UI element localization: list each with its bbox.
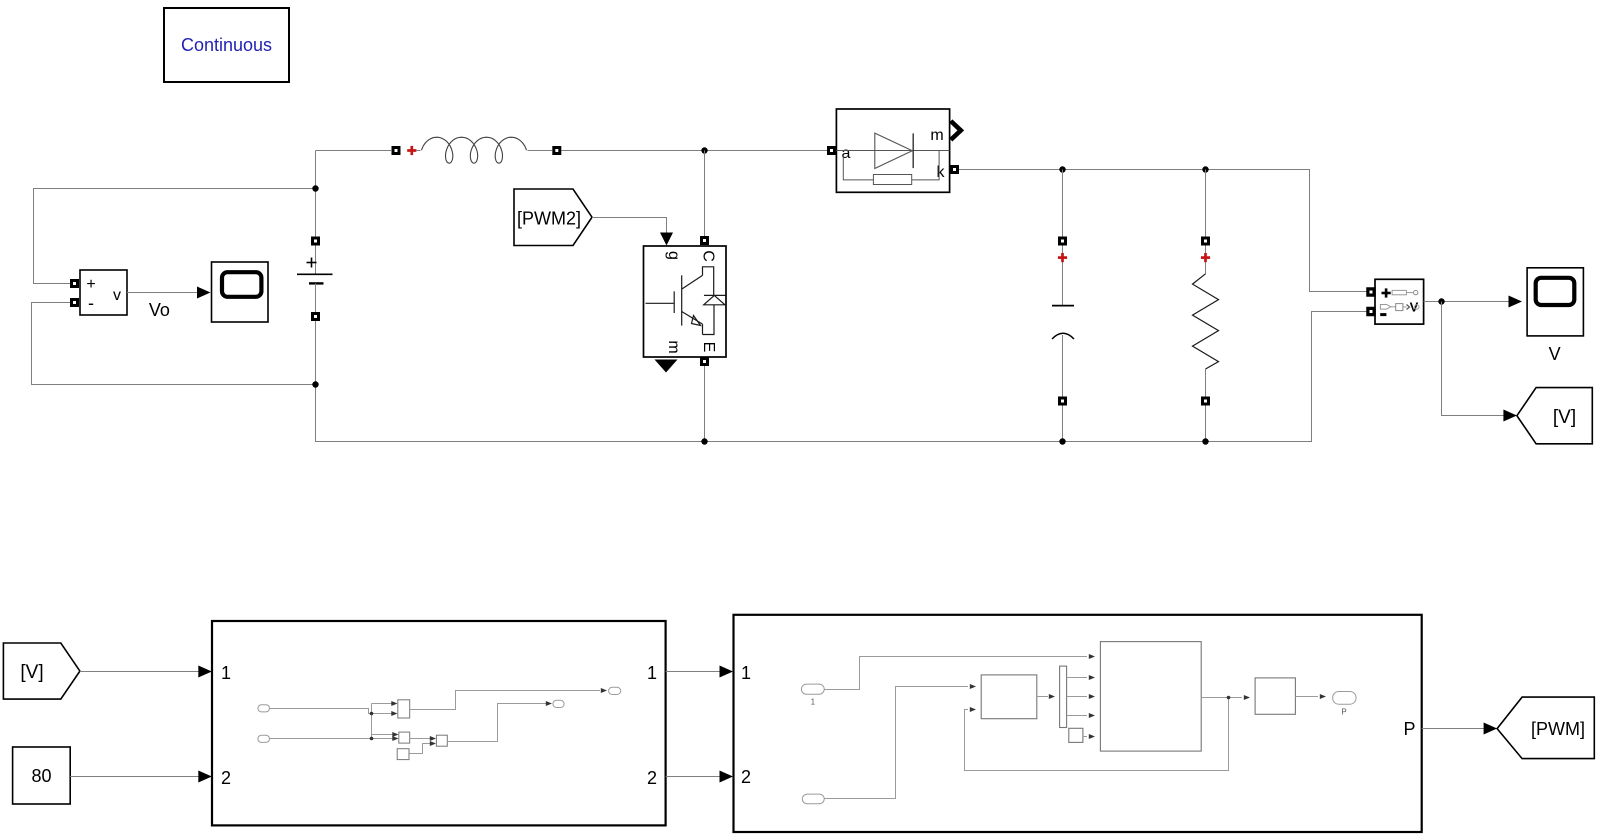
subsystem1 interior wires right (410, 688, 607, 754)
subsystem2 interior block A (981, 675, 1037, 719)
subsystem 2 box (734, 615, 1422, 832)
inductor L port left (392, 146, 401, 155)
svg-text:E: E (700, 342, 717, 353)
subsystem1 interior outport oval 1 (609, 687, 621, 694)
svg-text:k: k (937, 164, 946, 181)
scope Scope V (1527, 268, 1583, 336)
svg-text:[PWM]: [PWM] (1531, 719, 1585, 739)
subsystem2 inport label 2 (741, 767, 751, 787)
subsystem2 interior mux bar (1060, 666, 1067, 727)
subsystem1 interior block C (397, 749, 409, 760)
subsystem1 interior block D (436, 735, 447, 746)
wire inductor to diode (562, 150, 828, 152)
subsystem2 interior inport oval 2 (802, 794, 824, 804)
svg-text:P: P (1341, 708, 1346, 717)
node junction capacitor top (1059, 166, 1065, 172)
subsystem1 outport label 2 (647, 768, 657, 788)
subsystem2 interior wire big to B (1201, 695, 1250, 700)
subsystem1 interior outport oval 2 (553, 700, 564, 707)
svg-text:1: 1 (647, 663, 657, 683)
subsystem2 interior inport oval 1 (801, 684, 824, 706)
DC voltage source E (297, 237, 333, 322)
subsystem 1 box (212, 621, 666, 825)
svg-text:1: 1 (221, 663, 231, 683)
wire battery bottom vertical + bottom rail (316, 312, 1368, 442)
subsystem1 interior inport oval 2 (258, 735, 270, 742)
subsystem2 inport label 1 (741, 663, 751, 683)
node junction capacitor bottom (1059, 438, 1065, 444)
goto tag [V] (1517, 388, 1592, 444)
wire P to goto PWM (1422, 723, 1497, 735)
wire to goto V (1442, 302, 1517, 422)
svg-text:[V]: [V] (1553, 407, 1576, 428)
subsystem2 interior wire in1 to big block (824, 654, 1095, 690)
transistor IGBT block (644, 236, 727, 373)
subsystem1 inport label 2 (221, 768, 231, 788)
subsystem1 interior inport oval 1 (258, 705, 270, 712)
wire ss1 out1 to ss2 (666, 666, 733, 678)
wire 80 to subsystem1 (70, 771, 212, 783)
wire battery top vertical (315, 151, 317, 238)
wire VM1 plus loop (34, 189, 316, 284)
goto tag [PWM] (1497, 697, 1594, 759)
svg-text:Continuous: Continuous (181, 35, 272, 55)
subsystem2 interior feedback wire (965, 698, 1229, 771)
subsystem2 interior outport oval P (1333, 692, 1356, 717)
svg-text:1: 1 (741, 663, 751, 683)
svg-text:m: m (665, 340, 682, 353)
svg-text:2: 2 (221, 768, 231, 788)
node junction resistor top (1202, 166, 1208, 172)
subsystem2 outport label P (1403, 719, 1415, 739)
wire PWM2 to gate (592, 218, 673, 246)
powergui block "Continuous" (164, 8, 289, 82)
subsystem2 interior small constant (1069, 728, 1095, 742)
label V (1549, 344, 1561, 364)
capacitor C branch (1052, 170, 1074, 442)
subsystem2 interior wire in2 to block A (824, 684, 976, 799)
subsystem2 interior big block (1100, 642, 1201, 752)
subsystem2 interior mux outputs (1067, 675, 1095, 718)
node junction VM2 out (1438, 298, 1444, 304)
subsystem1 interior block A (398, 700, 410, 718)
wire VM2 output (1424, 296, 1522, 308)
wire collector drop (704, 151, 706, 237)
subsystem1 interior block B (399, 732, 410, 743)
resistor R load branch (1193, 170, 1219, 442)
subsystem1 interior wires left (270, 701, 399, 741)
inductor L port right (552, 146, 561, 155)
wire VM1 minus loop (32, 303, 316, 385)
subsystem1 inport label 1 (221, 663, 231, 683)
svg-text:1: 1 (811, 698, 816, 707)
node junction resistor bottom (1202, 438, 1208, 444)
wire emitter to bottom rail (704, 366, 706, 442)
svg-text:Vo: Vo (149, 300, 170, 320)
node junction IGBT collector tap (701, 147, 707, 153)
svg-text:C: C (700, 250, 717, 262)
svg-text:-: - (88, 293, 94, 313)
wire Vo signal (127, 287, 211, 299)
node junction emitter bottom (701, 438, 707, 444)
svg-text:[V]: [V] (20, 662, 43, 683)
node junction battery bottom (312, 381, 318, 387)
svg-text:V: V (1549, 344, 1561, 364)
svg-text:m: m (930, 127, 943, 144)
wire fromV to subsystem1 (80, 666, 212, 678)
svg-text:+: + (86, 276, 95, 293)
svg-text:P: P (1403, 719, 1415, 739)
subsystem2 interior block B (1255, 678, 1295, 714)
from tag [PWM2] (514, 189, 592, 246)
svg-text:g: g (665, 251, 682, 260)
subsystem2 interior wire A to mux (1037, 694, 1055, 699)
inductor L plus marker (407, 146, 416, 155)
svg-text:[PWM2]: [PWM2] (517, 209, 581, 229)
diode block D (827, 109, 961, 192)
wire source to inductor (316, 150, 392, 152)
wire diode k to right corner (959, 170, 1367, 292)
svg-text:v: v (113, 287, 121, 304)
from tag [V] (3, 643, 80, 699)
voltage measurement VM1 (70, 270, 127, 315)
subsystem2 interior wire B to outport (1295, 694, 1326, 699)
scope Scope1 (212, 262, 269, 322)
wire ss1 out2 to ss2 (666, 771, 733, 783)
constant block 80 (13, 747, 71, 804)
subsystem1 outport label 1 (647, 663, 657, 683)
svg-text:2: 2 (741, 767, 751, 787)
inductor L coil (416, 137, 552, 163)
svg-text:80: 80 (31, 766, 51, 786)
voltage measurement VM2 (1366, 279, 1423, 324)
svg-text:2: 2 (647, 768, 657, 788)
label Vo (149, 300, 170, 320)
node junction battery top (312, 185, 318, 191)
